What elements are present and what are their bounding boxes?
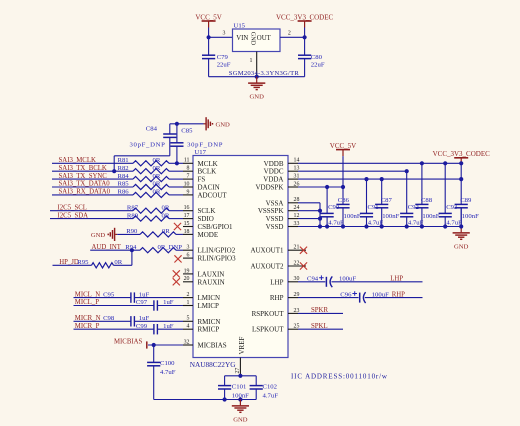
svg-text:C86: C86 — [338, 197, 350, 204]
svg-text:VCC_3V3_CODEC: VCC_3V3_CODEC — [276, 13, 334, 21]
svg-text:100nF: 100nF — [462, 213, 479, 220]
svg-text:VSSSPK: VSSSPK — [258, 207, 284, 215]
svg-text:4.7uF: 4.7uF — [160, 369, 176, 376]
U17 pin 2 LMICN (left) name+number — [183, 292, 220, 302]
C79 value label — [217, 54, 231, 69]
U15 pin name OUT — [257, 35, 272, 42]
U17 pin 8 BCLK (left) name+number — [183, 166, 216, 176]
svg-text:22uF: 22uF — [311, 62, 325, 69]
svg-text:ADCOUT: ADCOUT — [198, 191, 228, 199]
capacitor C85 — [170, 124, 183, 164]
svg-text:R86: R86 — [118, 189, 130, 196]
svg-text:C85: C85 — [181, 127, 193, 134]
svg-text:IIC ADDRESS:0011010r/w: IIC ADDRESS:0011010r/w — [291, 372, 388, 380]
power flag VCC_5V (mid) — [330, 142, 356, 187]
wire HP_JD net — [53, 250, 132, 265]
resistor R84 0R — [118, 173, 170, 182]
C94 value 100uF — [339, 276, 356, 283]
net label MICL_P — [75, 299, 99, 306]
wire AUD_INT to R94 — [90, 249, 140, 251]
wire R85 to U17 — [169, 186, 183, 188]
svg-text:VDDC: VDDC — [264, 168, 284, 176]
svg-text:VDDA: VDDA — [263, 176, 283, 184]
svg-text:GND: GND — [249, 32, 256, 46]
svg-text:C97: C97 — [136, 299, 148, 306]
capacitor C98 1uF — [74, 315, 184, 327]
svg-text:LAUXIN: LAUXIN — [198, 270, 225, 278]
wire pin27 node — [225, 375, 257, 377]
no-erc X pin 6 — [174, 255, 181, 262]
svg-text:100nF: 100nF — [382, 213, 399, 220]
resistor R81 0R — [118, 157, 170, 166]
svg-text:VSSD: VSSD — [266, 215, 284, 223]
wire LSPKOUT — [298, 328, 343, 330]
net label SAI3_TX_DATA0 — [59, 181, 111, 188]
U17 pin 4 RMICP (left) name+number — [183, 324, 219, 334]
capacitor C88 100nF — [415, 163, 439, 226]
wire VCC_5V to U15 VIN — [209, 36, 233, 38]
resistor R95 0R — [77, 259, 122, 268]
net label I2C5_SDA — [58, 212, 89, 219]
U17 pin 10 DACIN (left) name+number — [183, 181, 220, 191]
C96 value 100uF — [372, 291, 389, 298]
svg-text:OUT: OUT — [257, 35, 272, 42]
capacitor C102 4.7uF — [250, 376, 279, 400]
U17 pin 17 SDIO (left) name+number — [183, 213, 214, 223]
ground GND (sideways, R90 row) — [91, 228, 117, 241]
U17 pin 32 MICBIAS (left) name+number — [183, 339, 227, 349]
capacitor C86 100nF — [336, 187, 360, 227]
resistor R90 0R — [126, 228, 176, 237]
U17 pin 12 VSSD (right) name+number — [266, 213, 300, 223]
svg-text:U17: U17 — [194, 149, 206, 156]
svg-text:22uF: 22uF — [217, 62, 231, 69]
svg-text:MCLK: MCLK — [198, 160, 218, 168]
no-erc X pin 20 — [173, 278, 180, 285]
svg-text:R90: R90 — [126, 228, 138, 235]
svg-text:RAUXIN: RAUXIN — [198, 278, 225, 286]
wire R94 to U17 LLIN/GPIO2 — [176, 249, 183, 251]
capacitor C90 4.7uF — [321, 187, 345, 227]
capacitor C84 — [163, 124, 176, 156]
svg-text:LSPKOUT: LSPKOUT — [252, 326, 284, 334]
wire VDDB rail — [298, 162, 461, 164]
net label I2C5_SCL — [58, 204, 87, 211]
capacitor C101 100nF — [218, 376, 249, 400]
svg-text:DACIN: DACIN — [198, 184, 220, 192]
svg-text:FS: FS — [198, 176, 206, 184]
C84 designator — [146, 125, 158, 132]
svg-text:C96: C96 — [340, 291, 352, 298]
resistor R86 0R — [118, 189, 170, 198]
svg-text:AUXOUT1: AUXOUT1 — [250, 247, 284, 255]
junction C85 top — [175, 122, 179, 126]
junction HP_JD joins AUD_INT — [130, 248, 134, 252]
svg-text:100nF: 100nF — [344, 213, 361, 220]
C85 designator — [181, 127, 193, 134]
wire VSSD stub — [298, 218, 320, 220]
U17 pin 6 RLIN/GPIO3 (left) name+number — [183, 253, 236, 263]
ground rail bottom — [154, 399, 257, 401]
U17 pin 24 VSSSPK (right) name+number — [258, 205, 300, 215]
svg-text:GND: GND — [250, 94, 265, 101]
svg-text:0R: 0R — [162, 204, 170, 211]
svg-text:BCLK: BCLK — [198, 168, 217, 176]
net label RHP — [392, 291, 405, 298]
wire LHP left — [298, 281, 325, 283]
no-erc X pin 22 — [300, 262, 307, 269]
U17 pin 22 AUXOUT2 (right) name+number — [250, 260, 306, 270]
svg-text:1: 1 — [250, 58, 253, 64]
svg-text:C95: C95 — [103, 291, 115, 298]
U17 pin 19 LAUXIN (left) name+number — [183, 268, 224, 278]
U17 pin 7 FS (left) name+number — [183, 174, 205, 184]
svg-text:C100: C100 — [160, 360, 175, 367]
svg-text:RSPKOUT: RSPKOUT — [252, 310, 285, 318]
wire SAI3_TX_BCLK to R82 — [52, 170, 133, 172]
ground GND (sideways, top) — [204, 117, 231, 130]
wire SAI3_TX_SYNC to R84 — [52, 178, 133, 180]
junction pin27 — [238, 374, 242, 378]
svg-text:0R: 0R — [153, 173, 161, 180]
net label AUD_INT — [92, 244, 122, 251]
svg-text:VDDB: VDDB — [264, 160, 284, 168]
junction GND stem on rail — [238, 397, 242, 401]
capacitor C96 100uF — [340, 291, 365, 303]
U17 pin 23 RSPKOUT (right) name+number — [252, 308, 300, 318]
svg-text:GND: GND — [454, 244, 469, 251]
regulator U15 box — [233, 29, 281, 52]
svg-text:VDDSPK: VDDSPK — [255, 184, 283, 192]
capacitor C89 100nF — [455, 197, 479, 227]
wire VSSA to vert — [298, 203, 320, 227]
svg-text:VCC_5V: VCC_5V — [330, 142, 356, 150]
capacitor C95 1uF — [74, 291, 184, 303]
net label MICBIAS — [114, 339, 147, 349]
wire R90 to U17 MODE — [176, 233, 183, 235]
svg-text:GND: GND — [91, 232, 106, 239]
no-erc X pin 19 — [173, 270, 180, 277]
svg-text:LLIN/GPIO2: LLIN/GPIO2 — [198, 247, 236, 255]
C84 value 30pF_DNP — [130, 141, 166, 148]
U15 comment SGM2034-3.3YN3G/TR — [229, 70, 300, 77]
resistor R89 0R — [127, 212, 170, 221]
net label SAI3_TX_BCLK — [59, 165, 107, 172]
U17 pin 20 RAUXIN (left) name+number — [183, 276, 225, 286]
capacitor C94 100uF — [307, 275, 332, 287]
svg-text:0R: 0R — [153, 189, 161, 196]
svg-text:0R: 0R — [162, 212, 170, 219]
svg-text:SPKL: SPKL — [311, 323, 328, 330]
wire R86 to U17 — [169, 194, 183, 196]
junction U15 VIN node — [207, 35, 211, 39]
pin number 1 (U15 GND) — [250, 58, 253, 64]
svg-text:SPKR: SPKR — [311, 307, 328, 314]
pin number 2 (U15 OUT) — [288, 31, 291, 37]
svg-text:VIN: VIN — [236, 35, 248, 42]
svg-text:C94: C94 — [307, 276, 319, 283]
net label SAI3_MCLK — [59, 157, 96, 164]
U17 pin 5 RMICN (left) name+number — [183, 316, 220, 326]
svg-text:0R: 0R — [153, 165, 161, 172]
net label MICR_N — [75, 315, 101, 322]
pin number 3 (U15 VIN) — [223, 31, 226, 37]
net label HP_JD — [59, 259, 79, 266]
svg-text:AUXOUT2: AUXOUT2 — [250, 263, 284, 271]
U17 pin 16 SCLK (left) name+number — [183, 205, 215, 215]
svg-text:VCC_3V3_CODEC: VCC_3V3_CODEC — [433, 150, 491, 158]
junction U15 OUT node — [303, 35, 307, 39]
svg-text:RLIN/GPIO3: RLIN/GPIO3 — [198, 255, 237, 263]
U17 pin 26 VDDSPK (right) name+number — [255, 181, 299, 191]
net label SPKR — [311, 307, 328, 314]
svg-text:C102: C102 — [263, 384, 278, 391]
svg-text:R89: R89 — [127, 212, 139, 219]
wire I2C5_SCL to R87 — [50, 210, 133, 212]
svg-text:C84: C84 — [146, 125, 158, 132]
svg-text:SDIO: SDIO — [198, 215, 214, 223]
net label SAI3_RX_DATA0 — [59, 189, 111, 196]
U17 designator — [194, 149, 206, 156]
svg-text:VREF: VREF — [238, 337, 246, 355]
text IIC ADDRESS — [291, 372, 388, 380]
svg-text:LMICP: LMICP — [198, 302, 220, 310]
ground GND (below U15) — [248, 77, 265, 101]
U17 pin 11 MCLK (left) name+number — [183, 158, 218, 168]
junction C101 on rail — [223, 397, 227, 401]
svg-text:LHP: LHP — [270, 278, 283, 286]
svg-text:LHP: LHP — [390, 276, 403, 283]
svg-text:MODE: MODE — [198, 231, 219, 239]
wire VDDC rail — [298, 170, 407, 172]
svg-text:30pF_DNP: 30pF_DNP — [130, 141, 166, 148]
svg-text:VCC_5V: VCC_5V — [195, 13, 221, 21]
wire SAI3_MCLK to R81 — [52, 162, 133, 164]
wire C84 to BCLK net — [114, 156, 170, 171]
junctions power network — [318, 161, 463, 228]
svg-text:R81: R81 — [118, 157, 129, 164]
wire R87 to U17 — [169, 210, 183, 212]
capacitor C87 100nF — [375, 179, 399, 226]
svg-text:MICBIAS: MICBIAS — [114, 339, 143, 346]
svg-text:C79: C79 — [217, 54, 229, 61]
U17 comment NAU88C22YG — [190, 360, 237, 369]
U15 pin name GND (rotated) — [249, 32, 256, 46]
U15 designator — [234, 23, 246, 30]
U17 pin 28 VSSA (right) name+number — [266, 197, 300, 207]
U15 GND pin stub — [256, 52, 258, 77]
wire cap top rail to GND — [170, 123, 204, 125]
ground rail under U15 — [209, 76, 305, 78]
net label MICL_N — [75, 291, 100, 298]
codec U17 box — [193, 156, 288, 358]
net label MICR_P — [75, 323, 100, 330]
svg-text:C87: C87 — [381, 197, 393, 204]
U17 pin 14 VDDB (right) name+number — [264, 158, 300, 168]
svg-text:SCLK: SCLK — [198, 207, 216, 215]
resistor R94 0R_DNP — [125, 244, 182, 253]
svg-text:R84: R84 — [118, 173, 130, 180]
svg-text:C101: C101 — [232, 384, 247, 391]
wire R81 to U17 — [169, 162, 183, 164]
U17 pin 1 LMICP (left) name+number — [183, 300, 219, 310]
svg-text:VSSD: VSSD — [266, 223, 284, 231]
svg-text:MICBIAS: MICBIAS — [198, 342, 227, 350]
net label SAI3_TX_SYNC — [59, 173, 108, 180]
svg-text:0R: 0R — [153, 157, 161, 164]
U17 pin 31 VDDA (right) name+number — [263, 174, 299, 184]
ground GND (right) — [453, 227, 470, 251]
wire MICBIAS to U17 — [148, 344, 183, 346]
svg-text:C80: C80 — [311, 54, 323, 61]
resistor R85 0R — [118, 181, 170, 190]
wire I2C5_SDA to R89 — [50, 218, 133, 220]
svg-text:RMICP: RMICP — [198, 326, 220, 334]
U17 pin 27 VREF (bottom) — [235, 337, 246, 376]
wire R84 to U17 — [169, 178, 183, 180]
wire VDDSPK rail — [298, 186, 343, 188]
svg-text:C88: C88 — [421, 197, 433, 204]
wire VDDA rail — [298, 178, 461, 180]
svg-text:0R: 0R — [162, 228, 170, 235]
no-erc X pin 21 — [300, 247, 307, 254]
svg-text:VSSA: VSSA — [266, 199, 284, 207]
capacitor C79 — [202, 37, 215, 76]
junction GND rail node — [255, 75, 259, 79]
capacitor C100 4.7uF — [147, 345, 176, 400]
svg-text:RMICN: RMICN — [198, 318, 221, 326]
svg-text:100uF: 100uF — [339, 276, 356, 283]
svg-text:R87: R87 — [127, 204, 139, 211]
svg-text:C99: C99 — [136, 323, 148, 330]
svg-text:R82: R82 — [118, 165, 129, 172]
U17 pin 25 LSPKOUT (right) name+number — [252, 324, 299, 334]
junction C85 on MCLK — [175, 161, 179, 165]
power flag VCC_5V (top) — [195, 13, 221, 37]
svg-text:100nF: 100nF — [422, 213, 439, 220]
U17 pin 3 LLIN/GPIO2 (left) name+number — [183, 245, 236, 255]
ground GND (bottom) — [232, 400, 249, 424]
svg-text:C89: C89 — [460, 197, 472, 204]
wire RSPKOUT — [298, 312, 343, 314]
svg-text:3: 3 — [223, 31, 226, 37]
U17 pin 30 LHP (right) name+number — [270, 276, 299, 286]
capacitor C93 4.7uF — [439, 163, 463, 226]
svg-text:NAU88C22YG: NAU88C22YG — [190, 360, 237, 369]
svg-text:R85: R85 — [118, 181, 130, 188]
U17 pin 29 RHP (right) name+number — [270, 292, 300, 302]
junction C84 route on BCLK — [112, 169, 116, 173]
wire R82 to U17 — [169, 170, 183, 172]
U17 pin 9 ADCOUT (left) name+number — [183, 189, 227, 199]
junction MICBIAS/C100 — [152, 343, 156, 347]
wire U15 OUT to node — [280, 36, 305, 38]
svg-text:RHP: RHP — [392, 291, 405, 298]
svg-text:U15: U15 — [234, 23, 246, 30]
svg-text:CSB/GPIO1: CSB/GPIO1 — [198, 223, 234, 231]
U17 pin 13 VDDC (right) name+number — [264, 166, 300, 176]
U17 pin 15 CSB/GPIO1 (left) name+number — [183, 221, 233, 231]
svg-text:GND: GND — [233, 417, 248, 424]
U17 pin 18 MODE (left) name+number — [183, 229, 218, 239]
wire LHP right — [332, 281, 423, 283]
C80 value label — [311, 54, 325, 69]
wire C89 to rail/GND — [460, 208, 462, 227]
net label SPKL — [311, 323, 328, 330]
capacitor C97 1uF — [74, 299, 184, 311]
resistor R82 0R — [118, 165, 170, 174]
svg-text:0R: 0R — [153, 181, 161, 188]
capacitor C99 1uF — [74, 323, 184, 335]
svg-text:30pF_DNP: 30pF_DNP — [187, 141, 223, 148]
capacitor C92 4.7uF — [400, 171, 424, 226]
net label LHP — [390, 276, 403, 283]
U15 pin name VIN — [236, 35, 248, 42]
svg-text:LMICN: LMICN — [198, 294, 221, 302]
svg-text:100uF: 100uF — [372, 291, 389, 298]
capacitor C80 — [298, 37, 311, 76]
no-erc X pin 15 — [174, 223, 181, 230]
U17 pin 33 VSSD (right) name+number — [266, 221, 300, 231]
wire R89 to U17 — [169, 218, 183, 220]
power flag VCC_3V3_CODEC (right) — [433, 150, 491, 164]
wire GND to R90 — [117, 233, 140, 235]
svg-text:4.7uF: 4.7uF — [263, 393, 279, 400]
U17 pin 21 AUXOUT1 (right) name+number — [250, 245, 306, 255]
wire RHP right — [365, 297, 423, 299]
wire 3V3 stem down — [460, 163, 462, 202]
wire SAI3_RX_DATA0 to R86 — [52, 194, 133, 196]
wire VSSSPK stub — [298, 210, 320, 212]
svg-text:RHP: RHP — [270, 294, 284, 302]
C85 value 30pF_DNP — [187, 141, 223, 148]
power flag VCC_3V3_CODEC (top) — [276, 13, 334, 37]
svg-text:2: 2 — [288, 31, 291, 37]
wire SAI3_TX_DATA0 to R85 — [52, 186, 133, 188]
svg-text:C98: C98 — [103, 315, 115, 322]
ground rail right — [298, 226, 461, 228]
resistor R87 0R — [127, 204, 170, 213]
wire RHP left — [298, 297, 359, 299]
capacitor C91 4.7uF — [360, 179, 384, 227]
svg-text:GND: GND — [216, 121, 231, 128]
